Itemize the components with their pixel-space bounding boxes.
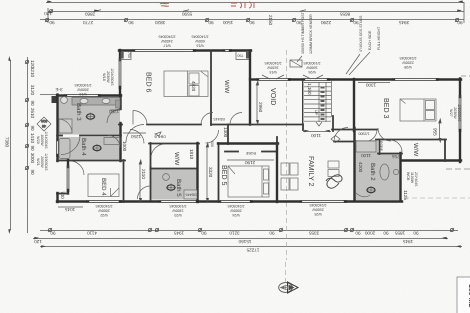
- bottom wall left section with windows W22 W23 W24 W25: [57, 201, 402, 203]
- bath2 basin: [393, 169, 398, 174]
- bath5 shower: [184, 190, 197, 199]
- bath2 tub: [356, 193, 370, 197]
- dim 1045: [58, 207, 83, 212]
- bed4 left outer wall with 700 nook: [57, 160, 69, 202]
- top wall bed6/ww with windows W17 W16: [119, 50, 251, 52]
- bath4 wc: [92, 144, 102, 152]
- door bed6: [133, 111, 147, 125]
- dashed line right lower: [446, 168, 470, 170]
- bath3 top wall with window W19: [57, 95, 121, 97]
- door ww bath5: [151, 144, 165, 158]
- bed5 left wall: [218, 143, 220, 202]
- bath3 shower: [59, 119, 72, 133]
- hallway wall above bath2: [334, 141, 356, 143]
- bath5 right wall: [196, 143, 198, 202]
- upper-left wall with window W18: [119, 50, 121, 97]
- door ww corridor: [130, 130, 144, 144]
- door hall to bed5 nook: [230, 113, 242, 125]
- bath3/bath4 dividing wall: [57, 135, 62, 137]
- family2 sofa squiggle: [328, 161, 339, 168]
- bed5 bed: [228, 166, 269, 197]
- timber post note (rotated): [297, 11, 313, 62]
- ww(bath5) top wall: [149, 143, 199, 145]
- upper top wall y=79.5 with windows W15 W26 W28: [250, 79, 461, 81]
- dim 1250 hallway: [123, 133, 146, 139]
- ww(bed3) top wall: [376, 139, 446, 141]
- bed3 left wall: [353, 79, 355, 131]
- bed4 right wall: [123, 160, 125, 202]
- top dimension line row A: [46, 0, 464, 13]
- bottom dimension row 1: [40, 228, 458, 236]
- door ww bed6: [201, 113, 213, 125]
- door landing to family: [334, 128, 348, 142]
- label W24: [228, 204, 245, 217]
- stairs right wall: [331, 80, 333, 117]
- dim 1250 upper: [108, 109, 120, 114]
- Bath 2 grey floor: [354, 140, 401, 200]
- family2/bath2 wall: [353, 128, 355, 201]
- bath5 wc: [166, 184, 176, 192]
- label W27 (rotated, right wall): [449, 105, 461, 122]
- row B tick circles: [45, 18, 459, 22]
- bath4 tub: [59, 139, 70, 159]
- landing/hall stub walls: [302, 125, 304, 131]
- bath2 tub oval: [380, 164, 389, 180]
- right outer wall: [459, 79, 461, 98]
- bottom dimension row 2: [33, 237, 448, 244]
- bath5 vanity: [163, 174, 170, 181]
- area box bottom-right: [457, 277, 470, 313]
- bed6 right wall: [210, 51, 212, 126]
- left outer wall bath3/4: [56, 95, 58, 141]
- bath2 wc: [366, 186, 376, 194]
- bath3 vanity: [61, 97, 120, 105]
- bath3 right wall: [119, 95, 121, 161]
- label W28: [400, 56, 417, 69]
- label W17: [159, 34, 176, 47]
- label W26: [303, 61, 323, 79]
- dashed grid line vertical: [286, 50, 288, 260]
- window W20 label (rotated): [36, 132, 48, 149]
- DP box: [290, 60, 302, 67]
- bed5 right wall: [276, 143, 278, 202]
- bath5 left wall: [150, 143, 152, 169]
- bath4/bed4 wall: [57, 160, 125, 162]
- window W21 label (rotated): [36, 154, 48, 171]
- dim 1100 stair: [303, 130, 340, 143]
- Bath 5 grey floor: [151, 169, 197, 200]
- pier outside bath3 corner: [52, 96, 58, 103]
- ww(bed3) bottom wall: [401, 159, 461, 161]
- door bed5: [206, 130, 219, 143]
- void/stair bottom + bed6/ww bottom corridor wall: [119, 125, 303, 145]
- left dimension line inner segments: [25, 57, 35, 233]
- Bath 4 grey floor: [58, 137, 120, 160]
- top dim row A labels (plan text upside down): [44, 11, 350, 17]
- bottom dimension row 3 (17225 overall): [40, 245, 462, 252]
- void/stair dividing wall: [302, 80, 304, 125]
- door bath3: [107, 109, 121, 123]
- Bath 3 grey floor: [58, 97, 120, 135]
- door bed4: [70, 161, 84, 175]
- top dimension line row B: [40, 2, 464, 23]
- door bath2: [365, 130, 377, 142]
- bed5 top wall: [218, 142, 278, 144]
- label W25: [310, 203, 327, 216]
- 750 corner post nook left: [119, 52, 131, 60]
- extension line left of bath3 wall: [40, 94, 57, 96]
- bath2 top wall: [354, 129, 377, 131]
- door ww bed3: [390, 140, 402, 152]
- red pen annotation marks: [160, 2, 254, 8]
- diamond door tag: [37, 117, 51, 131]
- bath5/ww dividing: [151, 168, 197, 170]
- corridor arrow mark: [155, 132, 161, 136]
- compass / section marker: [279, 262, 298, 293]
- door bed3: [378, 128, 391, 141]
- bed6 bed: [164, 71, 208, 97]
- dim 1300 bed3: [358, 83, 390, 88]
- bath3 wc: [86, 113, 96, 121]
- label W22: [96, 204, 113, 217]
- bed5 robe front: [225, 151, 276, 165]
- ww(bed3) right inner wall: [444, 140, 446, 162]
- label W23: [170, 204, 187, 217]
- family2 furniture tables: [281, 163, 298, 190]
- label W19: [75, 83, 92, 96]
- bath4 vanity: [104, 138, 120, 145]
- bath2 right wall: [399, 153, 401, 201]
- label W18 (rotated): [102, 69, 114, 86]
- bath2 shower: [356, 141, 376, 152]
- door bath4: [108, 136, 120, 148]
- 750 corner post nook right: [236, 51, 250, 60]
- door bath5: [138, 186, 151, 199]
- door hallway swing: [126, 125, 144, 143]
- label W16: [192, 34, 209, 47]
- stud note (rotated): [346, 15, 381, 75]
- row B labels: [49, 15, 463, 26]
- bed4 bed: [88, 174, 119, 197]
- left dimension line outer (7380 overall): [5, 56, 11, 234]
- label W15: [262, 61, 284, 79]
- void left wall: [249, 51, 251, 125]
- dim wcb label: [406, 172, 418, 186]
- bed3 bed: [400, 99, 436, 121]
